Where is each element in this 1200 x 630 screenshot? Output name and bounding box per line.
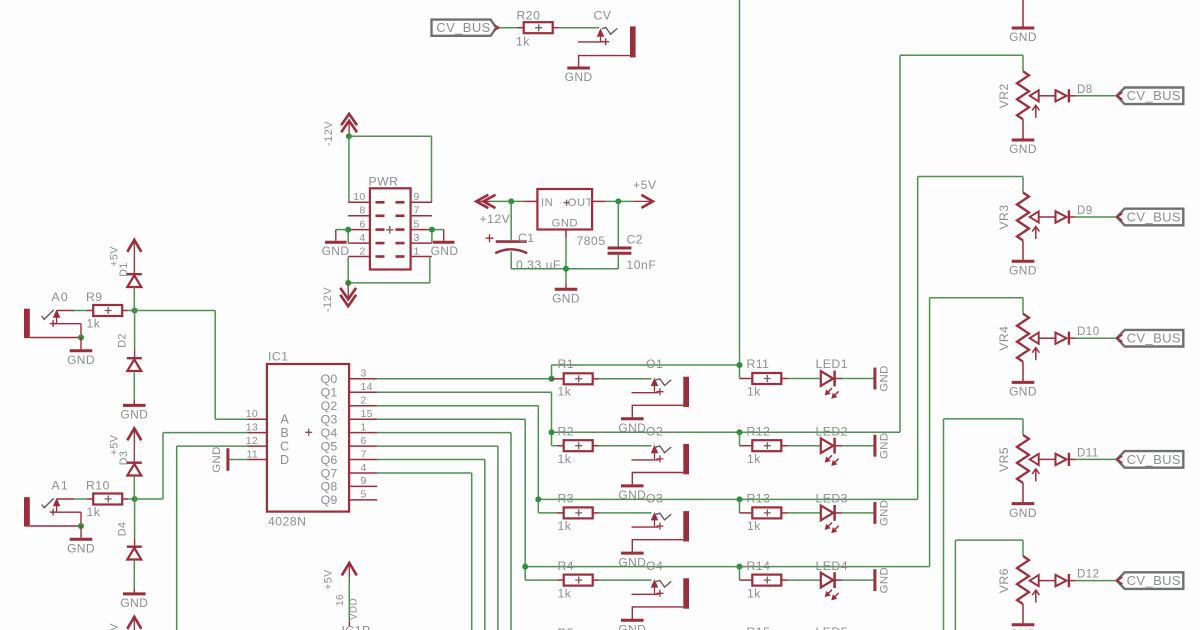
svg-text:R20: R20 xyxy=(517,9,541,23)
wire D11 to CV_BUS xyxy=(1076,458,1117,460)
IC1 pin 5 (Q9) xyxy=(321,489,378,508)
svg-text:Q9: Q9 xyxy=(321,493,338,507)
ground 7805 xyxy=(555,288,578,291)
wire Q0 net xyxy=(377,378,551,380)
wire R14 to LED4 xyxy=(788,579,820,581)
LED LED3 xyxy=(816,492,849,533)
supply +5V arrow (D1) xyxy=(109,240,142,274)
svg-text:R12: R12 xyxy=(747,424,771,438)
svg-text:D3: D3 xyxy=(118,451,130,466)
svg-text:GND: GND xyxy=(1009,385,1037,399)
wire riser to VR5 (from cropped row) xyxy=(943,419,945,630)
net tag CV_BUS (D11) xyxy=(1117,451,1184,468)
wire to VR3 top xyxy=(918,176,1023,178)
jack O2 xyxy=(618,424,689,502)
svg-text:1k: 1k xyxy=(87,316,101,330)
diode D3 xyxy=(118,451,142,499)
svg-text:12: 12 xyxy=(246,435,258,447)
svg-text:-12V: -12V xyxy=(323,121,335,146)
resistor R14 xyxy=(740,559,789,601)
svg-text:GND: GND xyxy=(431,244,459,258)
wire pin6-pin4 gnd left xyxy=(336,230,348,244)
svg-text:1k: 1k xyxy=(558,586,572,600)
svg-text:D8: D8 xyxy=(1077,84,1093,96)
junction R13 node xyxy=(737,496,743,502)
wire riser to VR6 (from cropped row) xyxy=(954,540,956,630)
wire A1 to R10 xyxy=(57,498,93,500)
wire LED4 to ground xyxy=(835,579,874,581)
svg-text:D11: D11 xyxy=(1077,447,1099,459)
svg-text:R10: R10 xyxy=(86,479,110,493)
svg-text:1k: 1k xyxy=(558,452,572,466)
svg-text:Q2: Q2 xyxy=(321,399,338,413)
svg-text:LED4: LED4 xyxy=(816,559,849,573)
resistor R20 xyxy=(516,9,559,49)
potentiometer VR4 xyxy=(997,298,1047,399)
wire D4 to ground xyxy=(133,560,135,593)
wire row1 link to R11 xyxy=(552,365,740,379)
IC1 pin 14 (Q1) xyxy=(321,381,378,400)
potentiometer VR5 xyxy=(997,419,1047,520)
svg-text:Q8: Q8 xyxy=(321,480,338,494)
supply -12V (top) xyxy=(323,114,357,146)
net tag CV_BUS (D9) xyxy=(1117,209,1184,226)
wire riser to VR4 xyxy=(929,298,931,567)
ground D4 xyxy=(123,592,146,595)
ground D2 xyxy=(123,404,146,407)
svg-text:1k: 1k xyxy=(747,452,761,466)
IC1 pin 6 (Q5) xyxy=(321,435,378,454)
jack O3 xyxy=(618,492,689,570)
PWR pin 2 xyxy=(348,245,384,257)
svg-text:CV_BUS: CV_BUS xyxy=(1127,88,1181,103)
wire VR3 wiper to D9 xyxy=(1047,216,1056,218)
svg-text:6: 6 xyxy=(361,435,367,447)
potentiometer VR6 xyxy=(997,540,1047,630)
svg-text:1: 1 xyxy=(361,421,367,433)
junction pin5 right xyxy=(429,227,435,233)
junction C1 top xyxy=(508,198,514,204)
IC1 power pin 16 (+5V) xyxy=(323,563,371,630)
wire R1 to jack O1 xyxy=(599,378,652,380)
svg-text:GND: GND xyxy=(879,500,891,527)
diode D12 xyxy=(1056,569,1100,588)
supply +5V arrow (D5, cropped) xyxy=(109,617,142,630)
wire pin5-pin3 gnd right xyxy=(432,230,444,244)
supply -12V (bottom) xyxy=(322,283,356,312)
ground PWR right xyxy=(431,242,459,257)
wire R3 to jack O3 xyxy=(599,512,652,514)
svg-text:GND: GND xyxy=(552,218,578,230)
ground LED4 (rotated) xyxy=(875,567,891,594)
svg-text:C1: C1 xyxy=(518,231,535,245)
IC1 pin 7 (Q6) xyxy=(321,448,378,467)
svg-text:4: 4 xyxy=(361,462,367,474)
svg-text:6: 6 xyxy=(359,219,365,231)
svg-text:VDD: VDD xyxy=(349,598,360,620)
wire D2 to ground xyxy=(133,371,135,404)
svg-text:R1: R1 xyxy=(558,357,575,371)
svg-text:R2: R2 xyxy=(558,424,575,438)
svg-text:IC1P: IC1P xyxy=(342,624,371,630)
PWR pin 7 xyxy=(396,205,432,217)
svg-text:1k: 1k xyxy=(747,519,761,533)
svg-text:LED3: LED3 xyxy=(816,492,849,506)
wire -12V to pin9 xyxy=(349,136,432,202)
svg-text:VR3: VR3 xyxy=(997,204,1011,229)
svg-text:Q0: Q0 xyxy=(321,372,338,386)
svg-text:C2: C2 xyxy=(627,233,644,247)
svg-text:C: C xyxy=(280,439,289,453)
junction node -12V top xyxy=(346,133,352,139)
wire Q2 net xyxy=(377,406,538,500)
resistor R9 xyxy=(86,290,128,330)
svg-text:D: D xyxy=(280,453,289,467)
IC U1 4028N box xyxy=(267,350,349,529)
svg-text:Q4: Q4 xyxy=(321,426,338,440)
wire to VR4 top xyxy=(930,297,1023,299)
wire A2 (cropped) to IC pin 12 xyxy=(177,446,248,630)
LED LED4 xyxy=(816,559,849,600)
wire D12 to CV_BUS xyxy=(1076,580,1117,582)
svg-text:1k: 1k xyxy=(558,385,572,399)
wire to VR2 top xyxy=(900,54,1023,56)
potentiometer VR3 xyxy=(997,177,1047,278)
svg-text:9: 9 xyxy=(361,475,367,487)
junction R2 node xyxy=(549,429,555,435)
wire VR4 wiper to D10 xyxy=(1047,337,1056,339)
svg-text:VR2: VR2 xyxy=(997,83,1011,108)
voltage regulator 7805 xyxy=(537,189,605,248)
junction R12 node xyxy=(737,429,743,435)
svg-text:10: 10 xyxy=(246,408,258,420)
diode D4 xyxy=(116,499,141,560)
resistor R4 xyxy=(557,559,599,601)
svg-text:1: 1 xyxy=(414,245,420,257)
svg-text:R13: R13 xyxy=(747,492,771,506)
wire riser to VR2 xyxy=(899,55,901,432)
svg-text:D10: D10 xyxy=(1077,326,1100,338)
svg-text:D12: D12 xyxy=(1077,569,1100,581)
wire Q4 net xyxy=(377,433,511,630)
svg-text:R4: R4 xyxy=(558,559,575,573)
wire Q5 net xyxy=(377,446,498,630)
wire +12V to 7805 IN xyxy=(490,200,537,202)
wire CV_BUS to R20 xyxy=(500,27,517,29)
IC1 pin 12 (C) xyxy=(246,435,290,454)
svg-text:0.33 uF: 0.33 uF xyxy=(516,258,561,272)
diode D2 xyxy=(116,311,141,372)
svg-text:IC1: IC1 xyxy=(268,350,288,364)
svg-text:LED1: LED1 xyxy=(816,357,849,371)
ground LED2 (rotated) xyxy=(875,432,891,459)
svg-text:14: 14 xyxy=(361,381,373,393)
wire pin2 to -12V bottom xyxy=(347,257,349,283)
svg-text:R11: R11 xyxy=(747,357,770,371)
svg-text:Q5: Q5 xyxy=(321,439,338,453)
junction ground rail xyxy=(563,266,569,272)
svg-text:1k: 1k xyxy=(87,505,101,519)
svg-text:OUT: OUT xyxy=(568,197,593,209)
wire D9 to CV_BUS xyxy=(1076,216,1117,218)
junction node -12V bottom xyxy=(345,280,351,286)
wire vertical bus x=739.5 (to R11 node) xyxy=(739,0,741,365)
svg-text:O1: O1 xyxy=(646,357,663,371)
svg-text:O4: O4 xyxy=(646,559,663,573)
supply +5V arrow (regulator) xyxy=(633,178,657,208)
wire -12V to pin10 xyxy=(348,136,350,202)
IC1 pin 2 (Q2) xyxy=(321,395,378,414)
wire VR2 wiper to D8 xyxy=(1047,95,1056,97)
svg-text:1k: 1k xyxy=(558,519,572,533)
diode D10 xyxy=(1056,326,1100,345)
PWR pin 10 xyxy=(348,191,384,203)
net tag CV_BUS (D10) xyxy=(1117,330,1184,347)
svg-text:GND: GND xyxy=(1009,263,1037,277)
wire row2 net xyxy=(552,432,901,446)
PWR pin 9 xyxy=(396,191,432,203)
PWR pin 4 xyxy=(348,232,384,244)
svg-text:7: 7 xyxy=(361,448,367,460)
svg-text:VR5: VR5 xyxy=(997,447,1011,472)
ground of VR1 (cropped at top) xyxy=(1009,0,1037,44)
PWR pin 6 xyxy=(348,219,384,231)
svg-text:9: 9 xyxy=(414,191,420,203)
resistor R11 xyxy=(740,357,789,399)
capacitor C2 xyxy=(608,201,657,272)
wire R12 to LED2 xyxy=(788,445,820,447)
IC1 pin 4 (Q7) xyxy=(321,462,378,481)
resistor R10 xyxy=(86,479,128,519)
jack O4 xyxy=(618,559,689,630)
wire R4 to jack O4 xyxy=(599,579,652,581)
diode D1 xyxy=(118,262,142,310)
net tag CV_BUS (D8) xyxy=(1117,88,1184,105)
svg-text:R14: R14 xyxy=(747,559,771,573)
resistor R12 xyxy=(740,424,789,466)
svg-text:7805: 7805 xyxy=(577,234,606,248)
svg-text:10nF: 10nF xyxy=(627,258,657,272)
svg-text:A: A xyxy=(280,413,289,427)
wire Q7 net xyxy=(377,473,471,630)
IC1 pin 11 (D) xyxy=(247,448,290,467)
wire row3 net xyxy=(538,499,917,513)
IC1 pin 10 (A) xyxy=(246,408,290,427)
svg-text:R9: R9 xyxy=(86,290,103,304)
svg-text:R3: R3 xyxy=(558,492,575,506)
svg-text:1k: 1k xyxy=(516,34,530,48)
wire ground rail under 7805 xyxy=(511,230,618,289)
diode D11 xyxy=(1056,447,1099,466)
svg-text:VR6: VR6 xyxy=(997,568,1011,593)
resistor R13 xyxy=(740,492,789,533)
svg-text:+5V: +5V xyxy=(323,569,335,590)
svg-text:Q1: Q1 xyxy=(321,386,338,400)
IC1 pin 15 (Q3) xyxy=(321,408,378,427)
svg-text:GND: GND xyxy=(67,353,95,367)
svg-text:CV_BUS: CV_BUS xyxy=(1127,452,1181,467)
wire VR5 wiper to D11 xyxy=(1047,458,1056,460)
svg-text:D1: D1 xyxy=(118,262,130,277)
net tag CV_BUS (top left) xyxy=(432,20,500,36)
svg-text:-12V: -12V xyxy=(322,287,334,312)
jack CV xyxy=(578,9,636,67)
resistor R1 xyxy=(552,357,600,399)
svg-text:3: 3 xyxy=(414,232,420,244)
svg-text:GND: GND xyxy=(120,408,148,422)
svg-text:GND: GND xyxy=(211,446,223,473)
junction node A0 xyxy=(132,308,138,314)
svg-text:GND: GND xyxy=(322,244,350,258)
svg-text:CV_BUS: CV_BUS xyxy=(436,20,490,35)
svg-text:4: 4 xyxy=(359,232,365,244)
resistor R3 xyxy=(557,492,599,533)
svg-text:GND: GND xyxy=(618,623,646,630)
IC1 pin 1 (Q4) xyxy=(321,421,378,440)
wire pin1 to -12V bottom xyxy=(348,257,430,283)
wire R10 to node xyxy=(128,498,135,500)
junction R3 node xyxy=(535,496,541,502)
svg-text:IN: IN xyxy=(541,197,553,209)
svg-text:GND: GND xyxy=(1009,142,1037,156)
PWR pin 1 xyxy=(396,245,432,257)
svg-text:VR4: VR4 xyxy=(997,326,1011,351)
wire Q1 net xyxy=(377,392,551,432)
junction R4 node xyxy=(522,564,528,570)
svg-text:GND: GND xyxy=(67,541,95,555)
junction R1 node xyxy=(549,376,555,382)
LED LED2 xyxy=(816,424,849,465)
jack A0 xyxy=(24,290,95,367)
wire VR6 wiper to D12 xyxy=(1047,580,1056,582)
wire A1 node to IC pin 13 xyxy=(135,433,248,499)
svg-text:11: 11 xyxy=(247,448,259,460)
svg-text:GND: GND xyxy=(120,596,148,610)
svg-text:5: 5 xyxy=(361,489,367,501)
svg-text:3: 3 xyxy=(361,368,367,380)
wire A0 node to IC pin 10 xyxy=(135,311,248,420)
svg-text:GND: GND xyxy=(879,432,891,459)
diode D9 xyxy=(1056,205,1093,224)
wire 7805 OUT to +5V xyxy=(592,200,633,202)
svg-text:5: 5 xyxy=(414,219,420,231)
ground LED3 (rotated) xyxy=(875,500,891,527)
svg-text:2: 2 xyxy=(359,245,365,257)
supply +12V arrow xyxy=(476,195,510,226)
svg-text:D2: D2 xyxy=(116,333,128,348)
svg-text:GND: GND xyxy=(1009,506,1037,520)
wire riser to VR3 xyxy=(917,177,919,500)
ground PWR left xyxy=(322,242,350,257)
junction node A1 xyxy=(132,496,138,502)
wire A0 to R9 xyxy=(57,310,93,312)
LED LED1 xyxy=(816,357,849,398)
IC1 pin 9 (Q8) xyxy=(321,475,378,494)
svg-text:CV_BUS: CV_BUS xyxy=(1127,331,1181,346)
svg-text:B: B xyxy=(280,426,289,440)
wire D8 to CV_BUS xyxy=(1076,95,1117,97)
junction pin6 left xyxy=(345,227,351,233)
junction C2 top xyxy=(615,198,621,204)
svg-text:PWR: PWR xyxy=(369,175,399,189)
connector PWR xyxy=(369,175,411,270)
capacitor C1 xyxy=(486,201,561,272)
supply +5V arrow (D3) xyxy=(109,428,142,462)
svg-text:Q7: Q7 xyxy=(321,466,338,480)
jack A1 xyxy=(24,479,95,556)
svg-text:CV_BUS: CV_BUS xyxy=(1127,573,1181,588)
svg-text:LED5: LED5 xyxy=(816,625,849,630)
wire R2 to jack O2 xyxy=(599,445,652,447)
wire LED1 to ground xyxy=(835,378,874,380)
svg-text:8: 8 xyxy=(359,205,365,217)
svg-text:LED2: LED2 xyxy=(816,424,849,438)
svg-text:1k: 1k xyxy=(747,586,761,600)
svg-text:R5: R5 xyxy=(558,626,575,630)
svg-text:+5V: +5V xyxy=(109,623,121,630)
svg-text:+5V: +5V xyxy=(633,178,657,192)
svg-text:GND: GND xyxy=(552,292,580,306)
wire to VR6 top xyxy=(955,539,1023,541)
svg-text:O3: O3 xyxy=(646,492,663,506)
wire LED3 to ground xyxy=(835,512,874,514)
svg-text:Q6: Q6 xyxy=(321,453,338,467)
svg-text:GND: GND xyxy=(1009,30,1037,44)
svg-text:2: 2 xyxy=(361,395,367,407)
svg-text:1k: 1k xyxy=(747,385,761,399)
wire LED2 to ground xyxy=(835,445,874,447)
svg-text:7: 7 xyxy=(414,205,420,217)
svg-text:D9: D9 xyxy=(1077,205,1093,217)
resistor R2 xyxy=(557,424,599,466)
svg-text:10: 10 xyxy=(353,191,365,203)
svg-text:4028N: 4028N xyxy=(268,515,306,529)
svg-text:16: 16 xyxy=(335,594,346,606)
svg-text:CV: CV xyxy=(594,9,612,23)
wire R11 to LED1 xyxy=(788,378,820,380)
svg-text:CV_BUS: CV_BUS xyxy=(1127,209,1181,224)
svg-text:GND: GND xyxy=(879,365,891,392)
wire row4 net xyxy=(525,567,929,581)
ground LED1 (rotated) xyxy=(875,365,891,392)
svg-text:D4: D4 xyxy=(116,522,128,537)
jack O1 xyxy=(618,357,689,435)
net tag CV_BUS (D12) xyxy=(1117,572,1184,589)
junction R14 node xyxy=(737,564,743,570)
wire R13 to LED3 xyxy=(788,512,820,514)
wire R9 to node xyxy=(128,310,135,312)
svg-text:Q3: Q3 xyxy=(321,413,338,427)
PWR pin 5 xyxy=(396,219,432,231)
ground IC pin 11 xyxy=(211,446,248,473)
svg-text:A1: A1 xyxy=(52,479,69,493)
svg-text:13: 13 xyxy=(246,421,258,433)
wire to VR5 top xyxy=(944,418,1024,420)
wire Q3 net xyxy=(377,419,525,566)
ground below CV jack xyxy=(567,67,590,70)
junction R11 node xyxy=(737,362,743,368)
wire D10 to CV_BUS xyxy=(1076,337,1117,339)
IC1 pin 13 (B) xyxy=(246,421,289,440)
svg-text:O2: O2 xyxy=(646,424,663,438)
diode D8 xyxy=(1056,84,1093,103)
svg-text:R15: R15 xyxy=(747,625,771,630)
svg-text:GND: GND xyxy=(565,70,593,84)
IC1 pin 3 (Q0) xyxy=(321,368,378,387)
svg-text:15: 15 xyxy=(361,408,373,420)
svg-text:+12V: +12V xyxy=(480,212,511,226)
wire R20 to CV jack xyxy=(559,27,599,29)
